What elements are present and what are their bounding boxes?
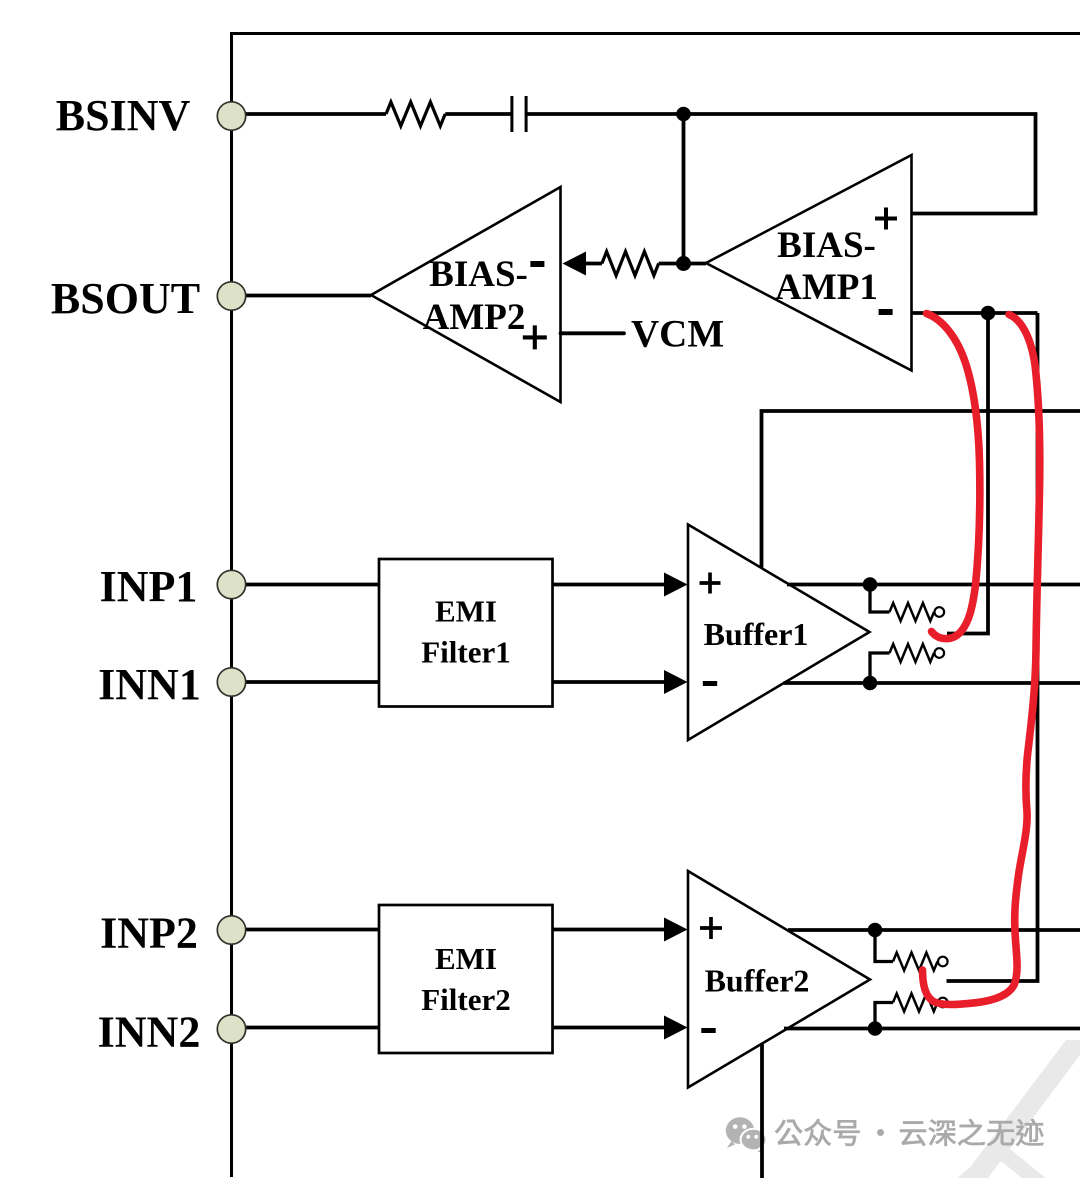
wire EMI Filter1 to Buffer1 - arrow — [553, 670, 688, 694]
op-amp Buffer1 — [688, 525, 870, 741]
svg-text:BIAS-: BIAS- — [429, 254, 528, 295]
wire capacitor to corner, down to BIAS-AMP1 + input — [526, 114, 1035, 214]
op-amp BIAS-AMP1 — [706, 155, 912, 371]
block EMI Filter2 — [379, 905, 553, 1053]
watermark X logo band — [962, 1040, 1080, 1178]
wire Buffer1 feedback loop top — [762, 411, 1080, 568]
wire Buffer2 - output line — [784, 1027, 1080, 1031]
pin INN2 — [98, 1008, 246, 1057]
wire Buffer1 + output line — [787, 583, 1080, 587]
wire INP2 to EMI Filter2 — [240, 928, 379, 932]
wire junction down to BIAS-AMP1 output node — [682, 114, 686, 264]
svg-text:EMI: EMI — [435, 594, 497, 629]
pin INP2 — [100, 909, 246, 958]
capacitor C1 (BSINV series) — [512, 96, 526, 132]
svg-text:BSINV: BSINV — [56, 91, 191, 140]
chip boundary wire — [232, 34, 1080, 1178]
svg-text:EMI: EMI — [435, 941, 497, 976]
svg-text:INN2: INN2 — [98, 1008, 201, 1057]
op-amp BIAS-AMP2 — [371, 187, 561, 402]
svg-text:INN1: INN1 — [98, 660, 201, 709]
pin BSOUT — [51, 274, 246, 323]
resistor Buffer1 lower feedback — [870, 644, 944, 683]
resistor Buffer1 upper feedback — [870, 585, 944, 622]
resistor R1 (BSINV series) — [386, 102, 445, 126]
wire EMI Filter1 to Buffer1 + arrow — [553, 573, 688, 597]
wire INP1 to EMI Filter1 — [240, 583, 379, 587]
wire long vertical to Buffer2 feedback tap — [947, 313, 1038, 981]
pin BSINV — [56, 91, 246, 140]
node Buffer1 - tap — [863, 676, 878, 691]
wire EMI Filter2 to Buffer2 - arrow — [553, 1016, 688, 1040]
node junction at resistor — [676, 256, 691, 271]
wire INN2 to EMI Filter2 — [240, 1026, 379, 1030]
arrow into BIAS-AMP2 minus input — [563, 252, 587, 276]
wire BIAS-AMP1 output to resistor node — [659, 262, 706, 266]
svg-text:INP2: INP2 — [100, 909, 198, 958]
svg-text:AMP1: AMP1 — [775, 267, 878, 308]
block EMI Filter1 — [379, 559, 553, 707]
resistor R2 (between bias amps) — [602, 252, 659, 276]
op-amp Buffer2 — [688, 871, 870, 1088]
resistor Buffer2 upper feedback — [875, 930, 948, 971]
red annotation curve 1 (BIAS-AMP1 minus to Buffer1 tap) — [927, 314, 980, 639]
pin INN1 — [98, 660, 246, 709]
wire BIAS-AMP1 minus input to right — [912, 311, 1038, 315]
svg-text:VCM: VCM — [631, 313, 724, 356]
watermark text 公众号·云深之无迹 — [775, 1119, 1043, 1146]
svg-text:Filter2: Filter2 — [421, 982, 511, 1017]
svg-text:Filter1: Filter1 — [421, 635, 511, 670]
watermark WeChat icon — [726, 1117, 767, 1154]
node Buffer2 + tap — [868, 923, 883, 938]
svg-text:BIAS-: BIAS- — [777, 225, 876, 266]
svg-text:INP1: INP1 — [100, 562, 198, 611]
wire BSOUT to BIAS-AMP2 output — [240, 294, 371, 298]
wire below Buffer2 to bottom edge — [760, 1043, 764, 1178]
watermark X logo chevron — [964, 1154, 1040, 1183]
net label VCM — [631, 313, 724, 356]
pin INP1 — [100, 562, 246, 611]
wire BSINV to resistor — [240, 112, 386, 116]
node Buffer2 - tap — [868, 1021, 883, 1036]
red annotation curve 2 (BIAS-AMP1 minus to Buffer2 tap) — [923, 315, 1040, 1005]
wire INN1 to EMI Filter1 — [240, 680, 379, 684]
svg-text:BSOUT: BSOUT — [51, 274, 200, 323]
svg-text:Buffer2: Buffer2 — [705, 963, 810, 999]
wire resistor to arrow — [584, 262, 602, 266]
wire resistor to capacitor — [445, 112, 512, 116]
node junction on minus net — [981, 306, 996, 321]
node junction on BSINV net — [676, 107, 691, 122]
svg-text:AMP2: AMP2 — [423, 297, 526, 338]
svg-text:Buffer1: Buffer1 — [704, 616, 809, 652]
node Buffer1 + tap — [863, 577, 878, 592]
resistor Buffer2 lower feedback — [875, 994, 948, 1029]
wire Buffer2 + output line — [788, 928, 1080, 932]
wire VCM to BIAS-AMP2 plus input — [561, 331, 625, 335]
wire Buffer1 - output line — [784, 681, 1080, 685]
wire EMI Filter2 to Buffer2 + arrow — [553, 918, 688, 942]
wire junction down to Buffer1 feedback tap — [947, 313, 988, 634]
